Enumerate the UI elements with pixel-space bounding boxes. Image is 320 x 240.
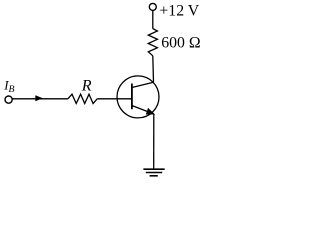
- transistor Q1 collector lead: [132, 82, 154, 87]
- transistor Q1 emitter lead: [132, 106, 154, 115]
- transistor Q1 base bar: [131, 84, 133, 110]
- wire emitter to ground: [153, 114, 155, 169]
- wire resistor to collector: [152, 56, 155, 82]
- resistor 600 ohm: [148, 29, 157, 56]
- current direction arrow: [35, 95, 43, 101]
- wire supply to resistor: [152, 10, 154, 28]
- ground symbol: [143, 169, 164, 176]
- wire resistor R to base: [97, 98, 132, 100]
- transistor Q1 emitter arrowhead: [146, 108, 154, 114]
- svg-text:R: R: [81, 78, 92, 95]
- terminal +12V supply: [149, 3, 156, 10]
- terminal IB input: [5, 96, 12, 103]
- svg-text:+12 V: +12 V: [159, 3, 199, 20]
- resistor R: [68, 94, 97, 103]
- transistor Q1 circle: [117, 76, 159, 118]
- svg-text:600 Ω: 600 Ω: [161, 35, 200, 52]
- wire input to resistor R: [12, 98, 68, 100]
